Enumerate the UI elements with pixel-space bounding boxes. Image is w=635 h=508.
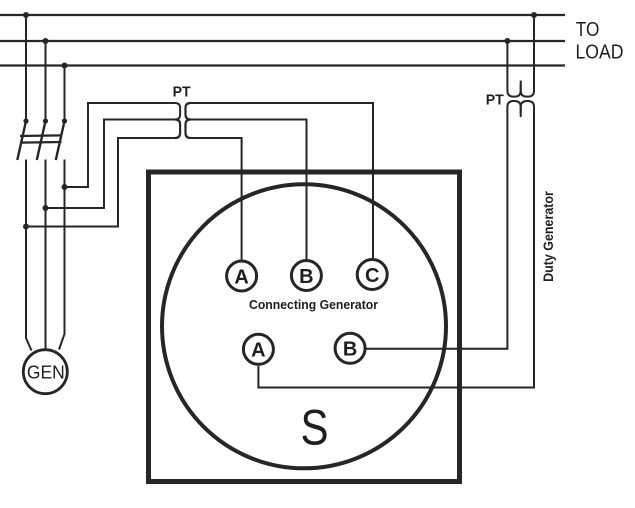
wire breaker pole 2 to GEN — [45, 160, 47, 350]
svg-text:C: C — [365, 265, 379, 287]
svg-text:LOAD: LOAD — [576, 41, 624, 64]
PT2 secondary winding left bump and wire to terminal B2 — [367, 101, 521, 349]
terminal B2 — [335, 333, 365, 363]
node L3 tap — [62, 63, 68, 69]
svg-text:S: S — [300, 399, 328, 455]
node L2 PT2 tap — [504, 38, 510, 44]
breaker CB blade 2 — [37, 121, 46, 160]
terminal A1 — [227, 261, 257, 291]
breaker CB blade 3 — [56, 121, 65, 160]
svg-text:A: A — [234, 266, 248, 288]
synchroscope box — [149, 172, 460, 482]
wire phase C to PT1 with PT1 primary winding upper bump — [65, 103, 181, 187]
svg-text:TO: TO — [576, 19, 600, 42]
svg-text:A: A — [251, 340, 265, 362]
wire L2 to PT2 with PT2 primary winding left bump — [507, 41, 520, 97]
breaker CB tie bar lower — [20, 141, 62, 144]
svg-text:Duty Generator: Duty Generator — [540, 191, 556, 282]
wire breaker pole 3 to GEN — [59, 160, 65, 350]
svg-text:B: B — [343, 339, 357, 361]
synchroscope dial circle — [162, 184, 446, 468]
wire phase A to PT1 primary bottom — [26, 138, 176, 227]
PT1 primary winding lower bump — [175, 120, 180, 139]
breaker CB contact 1 — [23, 118, 28, 123]
terminal A2 — [243, 334, 273, 364]
node phase C tap — [62, 184, 68, 190]
breaker CB contact 3 — [62, 118, 67, 123]
PT1 secondary winding lower bump — [186, 120, 191, 139]
node L1 tap — [23, 12, 29, 18]
PT2 secondary winding right bump and wire to terminal A2 — [258, 101, 534, 388]
breaker CB blade 1 — [17, 121, 26, 160]
terminal C1 — [357, 260, 387, 290]
wire phase B to PT1 primary middle — [46, 120, 179, 209]
breaker CB contact 2 — [43, 118, 48, 123]
PT1 secondary winding upper bump — [186, 103, 191, 120]
node phase A tap — [23, 224, 29, 230]
wire L2 to breaker pole 2 — [45, 41, 47, 121]
node L2 tap — [43, 38, 49, 44]
GEN generator G1 — [23, 350, 67, 394]
node L1 PT2 tap — [531, 12, 537, 18]
wire PT1 secondary top to terminal C — [191, 103, 374, 258]
svg-text:GEN: GEN — [27, 362, 65, 383]
svg-text:Connecting Generator: Connecting Generator — [249, 298, 378, 312]
wire L1 to breaker pole 1 — [25, 15, 27, 121]
wire PT1 secondary middle to terminal B — [188, 120, 307, 260]
node phase B tap — [43, 205, 49, 211]
bus line L3 — [0, 64, 565, 66]
svg-text:PT: PT — [486, 92, 504, 108]
svg-text:PT: PT — [173, 84, 191, 100]
svg-text:B: B — [299, 266, 313, 288]
bus line L2 — [0, 40, 565, 42]
bus line L1 — [0, 14, 565, 16]
terminal B1 — [291, 261, 321, 291]
wire L1 to PT2 with PT2 primary winding right bump — [521, 15, 534, 97]
breaker CB tie bar upper — [20, 134, 62, 137]
wire L3 to breaker pole 3 — [64, 66, 66, 122]
wire PT1 secondary bottom to terminal A — [191, 138, 242, 260]
wire breaker pole 1 to GEN — [26, 160, 32, 351]
